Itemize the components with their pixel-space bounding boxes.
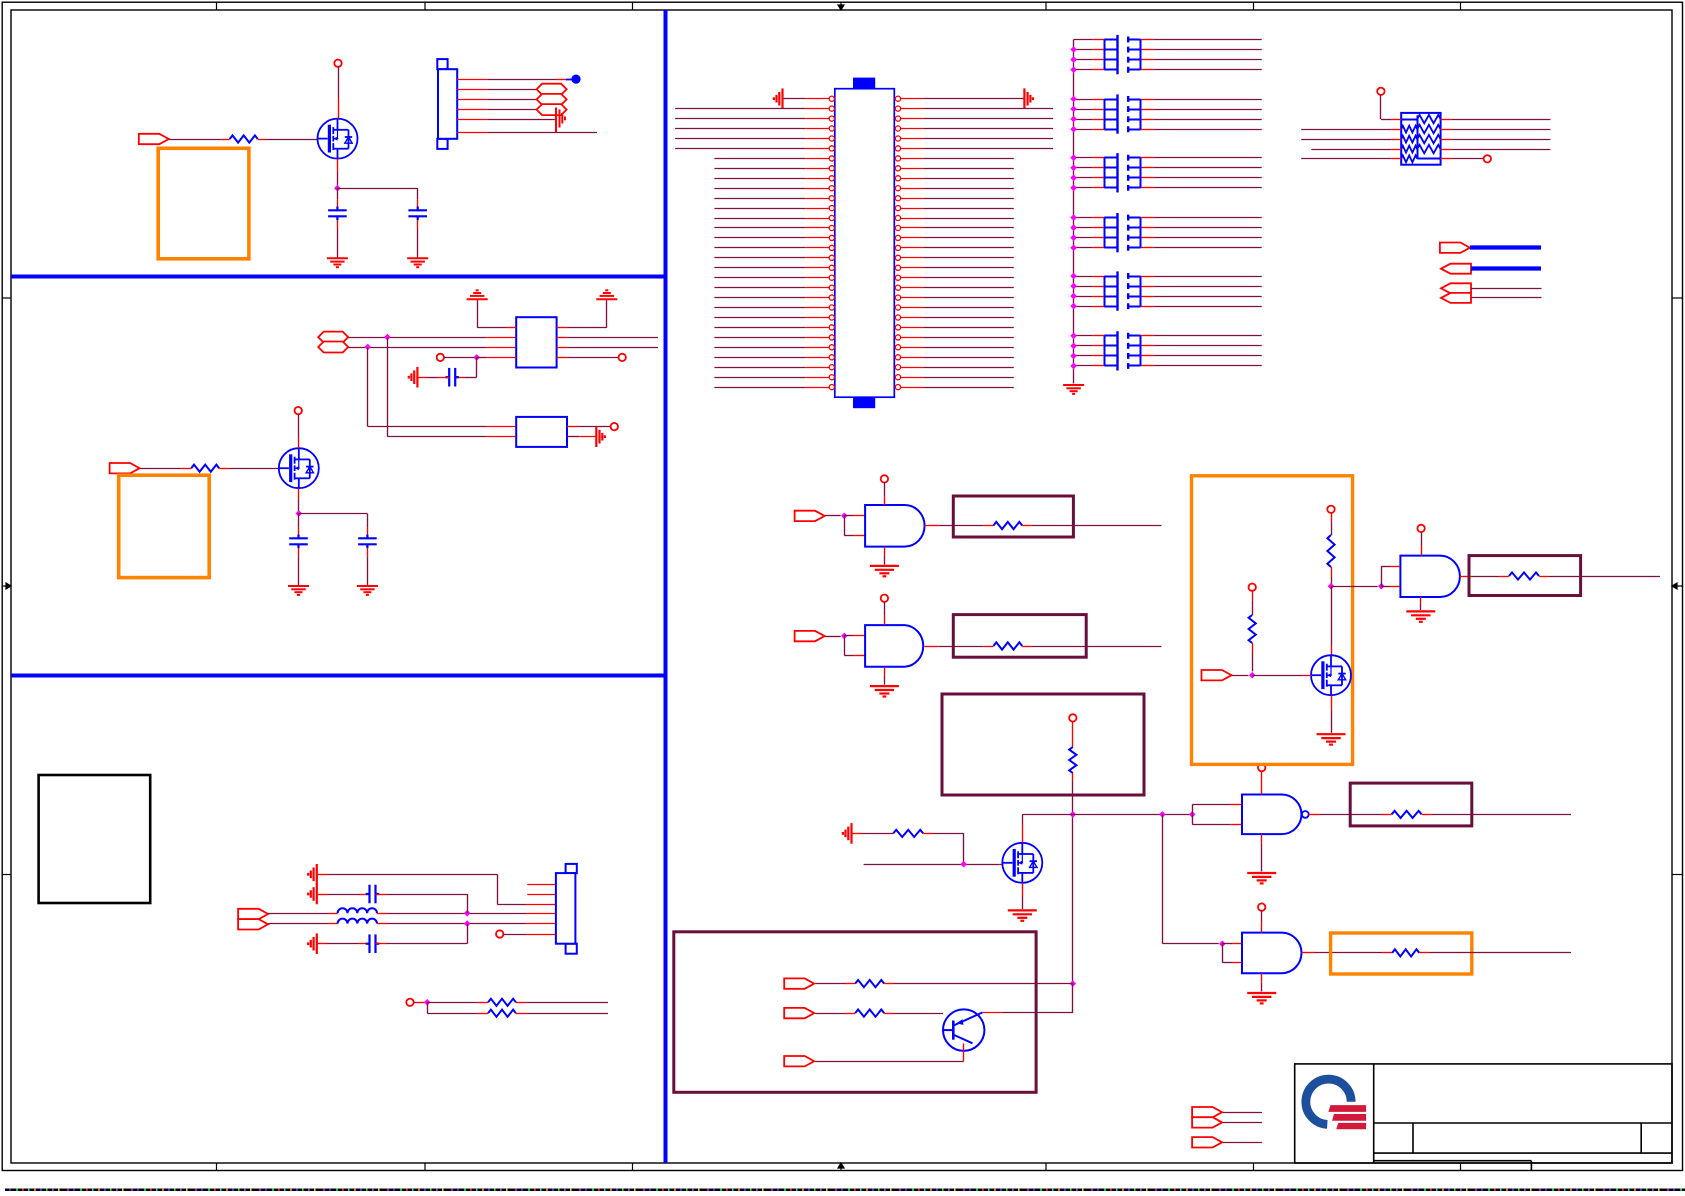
resistor R9 [1382, 814, 1392, 816]
node EN1 junction [841, 513, 848, 520]
series box SB4 (orange) [1331, 933, 1472, 974]
diff port pair OUT- [238, 919, 268, 929]
J2 pin2 stub [527, 894, 556, 896]
U1 left pin 2 [675, 108, 805, 110]
wire net N1 horizontal [1022, 814, 1192, 816]
wire Q3 gate stub [864, 864, 1000, 866]
center marker arrow left [2, 583, 11, 589]
wire to J2 pin6 [503, 934, 526, 936]
wire R6 out [1032, 646, 1162, 648]
wire R13 out [1549, 576, 1660, 578]
inductor L2 [338, 919, 377, 924]
ground FB1 pin1 (up) [467, 290, 488, 299]
resistor R5 [984, 525, 994, 527]
wire EN2 to U3 [825, 636, 841, 638]
U1 right pin 22 [895, 305, 900, 310]
node N1b junction [1159, 811, 1166, 818]
series box SB5 (maroon) [1469, 556, 1581, 596]
U1 right pin 5 [895, 136, 900, 141]
FB1 right pin1 wire to ground [557, 327, 567, 329]
wire DM branch down [367, 347, 369, 427]
U1 right pin 1 [895, 96, 900, 101]
wire R1 to Q1 gate [266, 139, 318, 141]
J1 pin 4 wire [457, 109, 487, 111]
wire Q5 source to ground [1331, 695, 1333, 710]
U1 right pin 14 [895, 225, 900, 230]
section divider horizontal upper [11, 275, 666, 279]
capacitor C6 (horizontal) [366, 885, 380, 904]
bidir port pin2 [537, 84, 567, 95]
wire OUT+ to L1 [268, 913, 329, 915]
wire U2 output [924, 525, 938, 527]
U1 right pin 11 [895, 196, 900, 201]
node N2 junction [1070, 980, 1077, 987]
node C5 junction [473, 354, 480, 361]
wire U6 VCC [1421, 532, 1423, 545]
U1 right pin 2 [895, 106, 900, 111]
AND gate U5 [1242, 933, 1302, 974]
U1 right pin 21 [895, 295, 900, 300]
ground G2 (left-facing) [308, 864, 317, 885]
blue junction dot [571, 75, 580, 84]
port BR3 [1192, 1137, 1222, 1147]
wire Q4 collector out [982, 1012, 1001, 1014]
U1 left pin 16 [714, 247, 805, 249]
cap array CN1 bus junctions [1070, 46, 1077, 73]
designator box C (black) [39, 775, 151, 903]
wire U6 output [1460, 576, 1472, 578]
circle port U6 VCC [1417, 525, 1424, 532]
cap array CN6 bus junctions [1070, 333, 1077, 370]
wire C7 to node L2 [376, 943, 387, 945]
U1 right pin 27 [895, 355, 900, 360]
wire PD [1471, 297, 1542, 299]
cap array CN5 bus junctions [1070, 273, 1077, 310]
port D1 [784, 978, 814, 988]
AND gate U2 [865, 505, 924, 547]
circle port U3 VCC [881, 595, 888, 602]
resistor R10 [1382, 952, 1392, 954]
U1 right pin 25 [895, 335, 900, 340]
wire U3 VCC [884, 602, 886, 615]
FB1 right pin3 wire [557, 347, 567, 349]
port EN1 [795, 511, 825, 521]
center marker arrow right [1672, 583, 1683, 589]
capacitor C1 [328, 207, 347, 221]
circle port Q5 VCC [1327, 506, 1334, 513]
resistor R11 (vertical) [1327, 535, 1334, 567]
wire node A1 to C1 [337, 188, 339, 199]
wire C5 to ground [438, 377, 449, 379]
U3 input wires [844, 635, 853, 637]
wire node to Q5 gate [1252, 675, 1303, 677]
wire node B1 to C4 [299, 513, 368, 515]
port IN_A [139, 134, 169, 144]
node RT junction [424, 999, 431, 1006]
circle port U5 VCC [1258, 903, 1265, 910]
U1 left pin 3 [675, 118, 805, 120]
wire node A1 to C2 [337, 188, 417, 190]
circle port U2 VCC [881, 475, 888, 482]
border zone ticks left and right [2, 298, 1682, 875]
IC U1 body [835, 89, 895, 398]
U1 left pin 8 [714, 168, 805, 170]
RN1 internal resistors right [1417, 115, 1440, 123]
U1 right pin 26 [895, 345, 900, 350]
U1 right pin 16 [895, 245, 900, 250]
port PB (input) [1441, 264, 1471, 274]
wire C2 to ground [417, 220, 419, 229]
wire D3 to Q4 emitter [815, 1061, 963, 1063]
U1 left pin 4 [675, 128, 805, 130]
U1 left pin 27 [714, 357, 805, 359]
wire to FB2 pin1 [368, 426, 486, 428]
wire C4 to ground [367, 548, 369, 556]
ground U6 [1406, 611, 1435, 621]
node U6 input junction [1378, 583, 1385, 590]
ground C2 [407, 258, 428, 267]
wire port to R1 [169, 139, 222, 141]
port BR1 [1192, 1107, 1222, 1117]
U1 left pin 12 [714, 208, 805, 210]
U4 input bracket [1189, 811, 1196, 818]
ground C5 (left-facing) [409, 367, 418, 388]
filter FB1 [516, 317, 556, 367]
wire R11 to node Q5D [1331, 567, 1333, 577]
wire RN1 common [1380, 95, 1382, 119]
U1 right pin 29 [895, 375, 900, 380]
wire BR1 [1223, 1112, 1262, 1114]
wire node down to Q5 [1331, 586, 1333, 645]
node A1 junction [334, 185, 341, 192]
J1 pin 5 wire [457, 119, 487, 121]
resistor R6 [984, 646, 994, 648]
U1 left pin 28 [714, 367, 805, 369]
resistor R4 [488, 1010, 516, 1017]
FB1 pin1 wire to ground [506, 327, 516, 329]
port D3 [784, 1056, 814, 1066]
transistor Q1 PMOS [318, 119, 358, 159]
wire R12 down to gate node [1252, 643, 1254, 653]
resistor R3 [488, 999, 516, 1006]
section divider horizontal lower [11, 674, 666, 678]
wire Q3 drain [1022, 825, 1024, 843]
U1 right pin 23 [895, 315, 900, 320]
port PA (output) [1440, 243, 1470, 253]
ground U3 [870, 686, 899, 696]
wire node B1 to C3 [298, 514, 300, 528]
wire L2 to J2 pin5 [387, 923, 526, 925]
wire to FB2 pin2 [387, 436, 486, 438]
capacitor C3 [289, 535, 308, 549]
node N1 junction [1070, 811, 1077, 818]
FB1 right pin4 wire to circle port [557, 357, 567, 359]
U1 right pin 20 [895, 285, 900, 290]
port EN2 [795, 631, 825, 641]
resistor R2 [191, 465, 219, 472]
ground C7 (left-facing) [308, 933, 317, 954]
IC U1 top tab [854, 78, 875, 89]
U2 input wires [844, 515, 853, 517]
wire OUT- to L2 [268, 923, 329, 925]
ground Q3 [1008, 910, 1037, 920]
wire node to R3 [427, 1002, 478, 1004]
capacitor array CN2 [1074, 94, 1262, 133]
series box SB1 (maroon) [953, 496, 1073, 537]
U1 left pin 6 [675, 148, 805, 150]
wire U4 ground [1261, 834, 1263, 844]
border zone ticks top [217, 2, 1461, 10]
ground R8 (left-facing) [843, 823, 852, 844]
wire L1 to J2 pin4 [387, 913, 526, 915]
wire ground to C7 [317, 943, 327, 945]
U1 right pin 10 [895, 186, 900, 191]
ground J1 pin5 (right-facing) [556, 108, 565, 133]
U1 right pin 4 [895, 126, 900, 131]
U1 left pin 30 [714, 387, 805, 389]
capacitor C7 (horizontal) [366, 934, 380, 953]
wire U5 output [1302, 952, 1315, 954]
circle port J2 pin6 [496, 930, 503, 937]
wire U4 VCC [1261, 771, 1263, 794]
wire R9 out [1431, 814, 1571, 816]
wire U2 ground [884, 547, 886, 556]
circle port RN1 pin10 [1484, 155, 1491, 162]
U1 right pin 15 [895, 235, 900, 240]
FB1 right pin2 wire [557, 337, 567, 339]
wire R10 out [1429, 952, 1571, 954]
wire node to FB1 pin4 [477, 357, 487, 359]
port PC (input) [1441, 283, 1471, 293]
resistor R1 [230, 135, 258, 142]
wire U5 VCC [1261, 911, 1263, 922]
resistor R7 (vertical) [1069, 747, 1076, 773]
U1 left pin 19 [714, 277, 805, 279]
circle port PB1 VCC [1069, 714, 1076, 721]
ground U1 right pin1 (right-facing) [1024, 88, 1033, 109]
wire R7 down [1072, 773, 1074, 781]
resistor network RN1 box [1401, 113, 1440, 165]
wire N1b branch down to U5 [1162, 814, 1164, 943]
filter FB2 [516, 417, 567, 447]
circle port FB1 out [619, 354, 626, 361]
capacitor C5 (horizontal) [445, 368, 459, 387]
U1 left pin 23 [714, 317, 805, 319]
node B1 junction [296, 510, 303, 517]
J1 pin 3 wire [457, 99, 487, 101]
ground U4 [1247, 873, 1276, 883]
transistor Q2 PMOS [279, 448, 319, 488]
U1 right pin 6 [895, 146, 900, 151]
resistor R12 (vertical) [1249, 615, 1256, 643]
bidir port pin3 [537, 94, 567, 105]
wire U3 ground [884, 667, 886, 676]
U1 right pin 17 [895, 255, 900, 260]
wire Q3 source to ground [1022, 883, 1024, 897]
wire VCC_B to Q2 drain [298, 414, 300, 437]
U1 left pin 18 [714, 267, 805, 269]
node Q3 gate junction [960, 861, 967, 868]
wire R2 to Q2 gate [229, 468, 279, 470]
AND gate U6 [1400, 556, 1460, 597]
wire G2 to J2 pin3 [317, 874, 327, 876]
node L1 junction [464, 910, 471, 917]
wire N2 to Q4 collector [1072, 984, 1074, 1014]
node L2 junction [464, 920, 471, 927]
resistor R13 [1499, 576, 1509, 578]
wire Q1 source to node A1 [337, 159, 339, 173]
wire Q5 drain to U6 [1331, 586, 1378, 588]
capacitor C4 [358, 535, 377, 549]
driver box (maroon) [674, 932, 1036, 1093]
transistor Q3 NMOS [1002, 843, 1042, 883]
ground C1 [327, 258, 348, 267]
RN1 internal bus [1417, 115, 1419, 158]
bidir port pin4 [537, 104, 567, 115]
cap array CN4 bus junctions [1070, 214, 1077, 251]
U1 right pin 7 [895, 156, 900, 161]
connector J2 [556, 864, 577, 954]
center marker arrow top [838, 2, 844, 10]
wire R3 out [526, 1002, 608, 1004]
wire D1 to R14 [815, 983, 845, 985]
ground U2 [870, 566, 899, 576]
title block outline [1295, 1064, 1672, 1171]
port G_IN [1202, 670, 1232, 680]
U1 left pin 14 [714, 227, 805, 229]
wire Q4 emitter down [963, 1043, 965, 1061]
U1 left pin 1 [783, 98, 806, 100]
ground FB2 (right-facing) [596, 426, 605, 447]
wire to R11 [1331, 513, 1333, 522]
wire R8 to Q3 gate [923, 833, 933, 835]
wire R14 to node N2 [894, 983, 1073, 985]
wire PC [1471, 288, 1542, 290]
designator box A (orange) [158, 148, 249, 258]
inductor L1 [338, 908, 377, 913]
wire node down to R4 [427, 1002, 429, 1013]
transistor Q4 PNP [943, 1009, 984, 1050]
U1 left pin 9 [714, 178, 805, 180]
capacitor array CN4 [1074, 213, 1262, 252]
ground U5 [1247, 993, 1276, 1003]
port D2 [784, 1008, 814, 1018]
bus stub PA (blue) [1470, 245, 1541, 249]
wire R15 to Q4 base [894, 1013, 943, 1015]
wire VCC to Q1 drain [338, 67, 340, 98]
FB2 right pin1 wire to circle port [567, 426, 578, 428]
U1 right pin 9 [895, 176, 900, 181]
node DM junction [365, 344, 372, 351]
U1 left pin 11 [714, 198, 805, 200]
circle port FB2 out [611, 423, 618, 430]
wire port to R2 [140, 468, 182, 470]
connector J1 [437, 59, 457, 149]
port IN_B [110, 463, 140, 473]
cap array ground bus [1073, 40, 1075, 384]
ground Q5 [1317, 734, 1346, 744]
resistor R15 [855, 1010, 884, 1017]
wire R4 out [526, 1013, 608, 1015]
wire node down to C5 [476, 357, 478, 377]
ground FB1 right pin1 (up) [596, 290, 617, 299]
J1 pin 6 wire [457, 132, 487, 134]
pull-up box PB1 (maroon) [942, 694, 1144, 795]
ground C3 [288, 586, 309, 595]
J1 pin 1 wire to blue dot [457, 79, 487, 81]
bidir port DM [318, 342, 348, 353]
circle port RT node [406, 999, 413, 1006]
wire RT [414, 1002, 428, 1004]
wire C3 to ground [298, 548, 300, 556]
RN1 left pin wires [1301, 129, 1391, 131]
capacitor array CN3 [1074, 153, 1262, 192]
wire ground to C6 [317, 894, 327, 896]
cap array bus ground [1063, 385, 1084, 394]
U1 left pin 15 [714, 237, 805, 239]
node Q5 drain junction [1328, 583, 1335, 590]
center marker arrow bottom [838, 1163, 844, 1171]
U1 left pin 24 [714, 327, 805, 329]
ground U1 left pin1 (left-facing) [774, 88, 783, 109]
transistor Q5 NMOS [1311, 655, 1351, 695]
circle port C5 node [437, 354, 444, 361]
circle port VCC_A [334, 60, 341, 67]
wire EN1 to U2 [825, 515, 841, 517]
U1 left pin 10 [714, 188, 805, 190]
U1 left pin 21 [714, 297, 805, 299]
port BR2 [1192, 1117, 1222, 1127]
wire R5 out [1032, 525, 1162, 527]
node EN2 junction [841, 633, 848, 640]
FB2 right pin2 wire to ground [567, 436, 579, 438]
series box SB3 (maroon) [1350, 783, 1472, 826]
wire U6 ground [1420, 597, 1422, 604]
wire BR3 [1223, 1142, 1262, 1144]
wire Q2 source to node B1 [298, 488, 300, 500]
U1 left pin 13 [714, 218, 805, 220]
wire D2 to R15 [815, 1013, 845, 1015]
node DP junction [384, 334, 391, 341]
U1 right pin 18 [895, 265, 900, 270]
section divider vertical [664, 10, 668, 1163]
U6 input bracket [1381, 586, 1390, 588]
bus stub PB (blue) [1471, 266, 1541, 270]
wire U4 output [1309, 814, 1319, 816]
ground C4 [357, 586, 378, 595]
U1 right pin 19 [895, 275, 900, 280]
diff port pair OUT+ [238, 909, 268, 919]
U1 left pin 25 [714, 337, 805, 339]
U1 left pin 22 [714, 307, 805, 309]
capacitor array CN1 [1074, 35, 1262, 74]
U1 left pin 26 [714, 347, 805, 349]
company logo [1306, 1079, 1366, 1129]
port PD (input) [1441, 293, 1471, 303]
U1 right pin 30 [895, 385, 900, 390]
IC U1 bottom tab [854, 397, 875, 408]
wire C5 node [444, 357, 477, 359]
U5 input bracket [1219, 941, 1226, 948]
wire C1 to ground [337, 220, 339, 229]
wire ground to R8 [852, 833, 863, 835]
U4 output bubble [1302, 811, 1309, 818]
capacitor C2 [408, 207, 427, 221]
circle port U4 VCC (from orange box) [1258, 764, 1265, 771]
series box SB2 (maroon) [953, 615, 1086, 658]
resistor R14 [855, 980, 884, 987]
wire G_IN to Q5 gate [1232, 675, 1249, 677]
